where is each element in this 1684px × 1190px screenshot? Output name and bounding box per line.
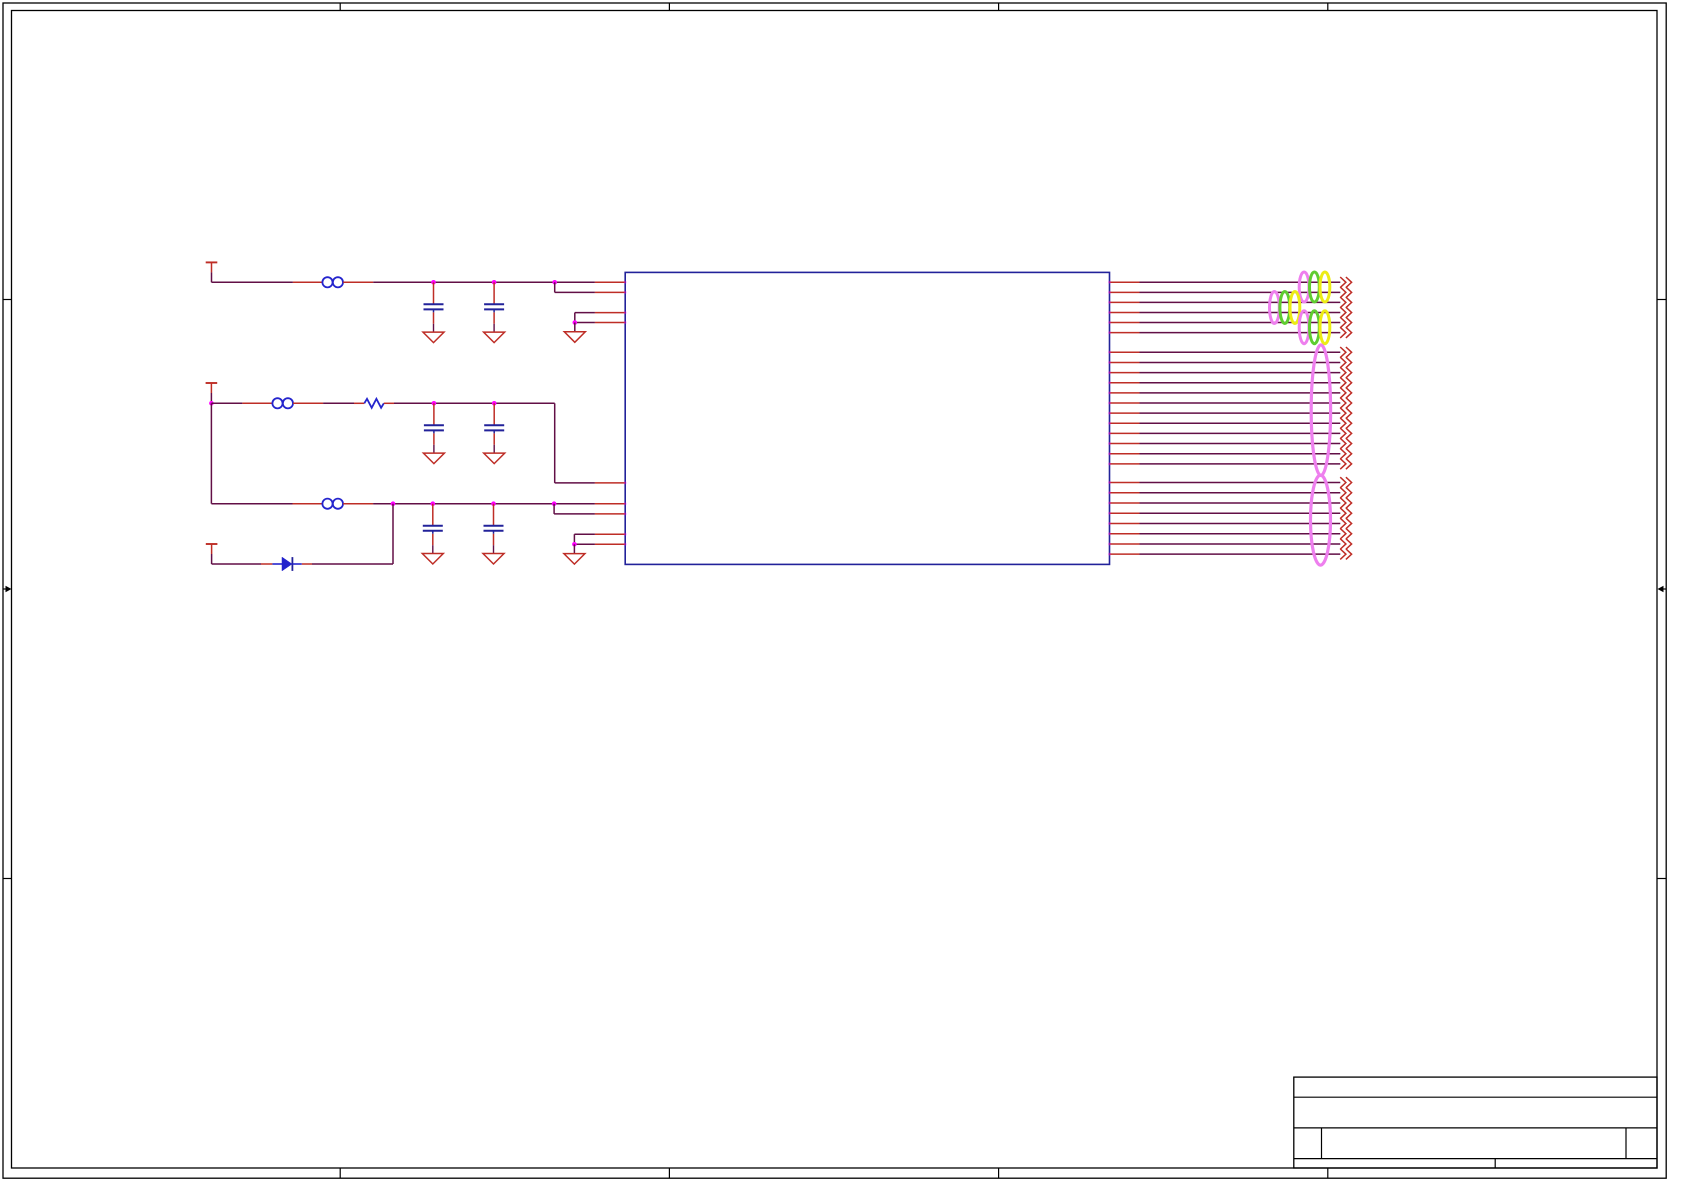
pin stub IC right B5	[1110, 392, 1140, 394]
ground below C2	[484, 332, 505, 343]
off-page connector C4	[1340, 508, 1351, 519]
net bubble tall (group C)	[1311, 475, 1331, 565]
capacitor C4	[484, 403, 504, 453]
capacitor C3	[424, 403, 444, 453]
wire left vertical middle-to-bottom	[210, 403, 212, 503]
pin stub IC right B11	[1110, 453, 1140, 455]
wire diode branch vertical	[392, 504, 394, 564]
wire net C4	[1140, 512, 1341, 514]
wire net B4	[1140, 382, 1341, 384]
off-page connector B2	[1340, 357, 1351, 368]
pin stub IC right A2	[1110, 291, 1140, 293]
pin stub diode D1 cathode	[302, 563, 312, 565]
junction rows3-4 stub	[573, 320, 578, 325]
wire branch row2 (top rail)	[555, 291, 595, 293]
off-page connector B5	[1340, 388, 1351, 399]
left centre arrow	[3, 586, 12, 592]
pin stub ferrite bead FB2 left	[242, 402, 272, 404]
off-page connector B11	[1340, 448, 1351, 459]
off-page connector B9	[1340, 428, 1351, 439]
pin stub IC right C4	[1110, 512, 1140, 514]
pin stub IC right A5	[1110, 322, 1140, 324]
ground below C6	[483, 554, 504, 565]
pin stub IC pin (bottom rail row2)	[595, 513, 625, 515]
pin stub IC right A4	[1110, 311, 1140, 313]
ground below C5	[422, 554, 443, 565]
wire net C1	[1140, 482, 1341, 484]
capacitor C5	[423, 504, 443, 554]
pin stub IC right A3	[1110, 301, 1140, 303]
IC pin connection marks	[624, 281, 1111, 556]
ferrite bead FB1	[322, 277, 343, 287]
junction top rail at C1	[431, 280, 436, 285]
wire net A6	[1140, 332, 1341, 334]
power symbol VCC (top rail)	[206, 262, 218, 272]
pin stub IC right C7	[1110, 543, 1140, 545]
capacitor C6	[484, 504, 504, 554]
junction bottom rail diode branch	[391, 501, 396, 506]
pin stub IC right B12	[1110, 463, 1140, 465]
wire middle rail segment b	[323, 402, 354, 404]
bottom zone tick 2	[668, 1168, 670, 1178]
net bubble violet (trio upper)	[1299, 272, 1309, 302]
wire net B1	[1140, 351, 1341, 353]
pin stub IC right B8	[1110, 422, 1140, 424]
pin stub diode D1 anode	[261, 563, 272, 565]
pin stub IC right A6	[1110, 332, 1140, 334]
off-page connector A6	[1340, 327, 1351, 338]
wire row s1 to stub	[574, 533, 595, 535]
pin stub IC right C1	[1110, 482, 1140, 484]
ground below C1	[423, 332, 444, 343]
ground below C3	[423, 453, 444, 464]
wire net B6	[1140, 402, 1341, 404]
pin stub ferrite bead FB3 left	[293, 503, 323, 505]
wire net C3	[1140, 502, 1341, 504]
pin stub IC right B1	[1110, 351, 1140, 353]
net bubble violet (trio left)	[1270, 292, 1280, 324]
junction middle rail at C3	[432, 401, 437, 406]
wire top rail segment a	[212, 281, 293, 283]
wire stub vertical (rows s1-s2)	[573, 534, 575, 544]
wire middle rail corner down	[554, 403, 556, 483]
off-page connector A5	[1340, 317, 1351, 328]
off-page connector B3	[1340, 367, 1351, 378]
off-page connector B6	[1340, 398, 1351, 409]
wire row4 to stub	[575, 322, 595, 324]
off-page connector B1	[1340, 347, 1351, 358]
pin stub IC right B6	[1110, 402, 1140, 404]
junction middle rail at C4	[492, 401, 497, 406]
off-page connector C5	[1340, 518, 1351, 529]
diode D1	[272, 557, 301, 571]
capacitor C2	[484, 282, 504, 332]
wire net B10	[1140, 443, 1341, 445]
right zone tick 2	[1657, 878, 1666, 880]
wire net C2	[1140, 492, 1341, 494]
pin stub ferrite bead FB1 left	[293, 281, 323, 283]
wire middle rail to IC	[555, 482, 595, 484]
capacitor C1	[424, 282, 444, 332]
net bubble green (trio left)	[1280, 292, 1290, 324]
pin stub IC right B2	[1110, 361, 1140, 363]
net bubble yellow (trio upper)	[1320, 272, 1330, 302]
pin stub ferrite bead FB3 right	[343, 503, 373, 505]
wire net A1	[1140, 281, 1341, 283]
right centre arrow	[1658, 586, 1667, 592]
net bubble yellow (trio lower)	[1320, 311, 1330, 344]
net bubble tall (group B)	[1311, 345, 1330, 476]
off-page connector B7	[1340, 408, 1351, 419]
pin stub IC pin row s1	[595, 533, 625, 535]
wire net A2	[1140, 291, 1341, 293]
pin stub IC right A1	[1110, 281, 1140, 283]
pin stub IC right C2	[1110, 492, 1140, 494]
wire net C8	[1140, 553, 1341, 555]
net bubble green (trio upper)	[1310, 272, 1320, 302]
wire net B2	[1140, 361, 1341, 363]
wire top rail segment b	[373, 281, 595, 283]
pin stub IC right B4	[1110, 382, 1140, 384]
power symbol VCC (middle rail)	[206, 383, 218, 393]
wire net B12	[1140, 463, 1341, 465]
off-page connector A1	[1340, 277, 1351, 288]
junction rows s1-s2 stub	[572, 542, 577, 547]
wire stub vertical (rows3-4)	[574, 313, 576, 323]
pin stub IC right B3	[1110, 372, 1140, 374]
junction bottom rail at C5	[431, 501, 436, 506]
pin stub IC right C3	[1110, 502, 1140, 504]
off-page connector B10	[1340, 438, 1351, 449]
off-page connector B4	[1340, 377, 1351, 388]
wire stub to ground (rows3-4)	[574, 323, 576, 332]
off-page connector C6	[1340, 528, 1351, 539]
off-page connector C2	[1340, 487, 1351, 498]
wire net B3	[1140, 372, 1341, 374]
junction top rail at C2	[492, 280, 497, 285]
wire net B8	[1140, 422, 1341, 424]
pin stub IC right B9	[1110, 432, 1140, 434]
off-page connector C1	[1340, 477, 1351, 488]
pin stub ferrite bead FB2 right	[293, 402, 323, 404]
wire bottom rail segment b	[373, 503, 595, 505]
wire net A4	[1140, 311, 1341, 313]
junction middle rail left	[209, 401, 214, 406]
bottom zone tick 3	[998, 1168, 1000, 1178]
pin stub IC right B7	[1110, 412, 1140, 414]
top zone tick 4	[1327, 3, 1329, 11]
wire net B5	[1140, 392, 1341, 394]
top zone tick 2	[668, 3, 670, 11]
wire power stem (middle rail)	[210, 393, 212, 403]
off-page connector B12	[1340, 459, 1351, 470]
pin stub IC right B10	[1110, 443, 1140, 445]
pin stub IC pin (top rail row2)	[595, 291, 625, 293]
wire net C5	[1140, 522, 1341, 524]
ground below C4	[484, 453, 505, 464]
wire diode row segment a	[212, 563, 261, 565]
ferrite bead FB2	[272, 398, 293, 408]
right zone tick 1	[1657, 299, 1666, 301]
wire branch down (top rail)	[554, 282, 556, 292]
title block	[1294, 1077, 1657, 1168]
wire power stem (top rail)	[211, 272, 213, 282]
pin stub IC pin (top rail row1)	[595, 281, 625, 283]
junction top rail branch	[552, 280, 557, 285]
wire net C7	[1140, 543, 1341, 545]
top zone tick 1	[339, 3, 341, 11]
wire row s2 to stub	[574, 543, 595, 545]
off-page connector C3	[1340, 498, 1351, 509]
wire net A3	[1140, 301, 1341, 303]
pin stub resistor R1 left	[354, 402, 364, 404]
top zone tick 3	[998, 3, 1000, 11]
wire diode row segment b	[312, 563, 393, 565]
wire middle rail segment a	[211, 402, 242, 404]
off-page connector A4	[1340, 307, 1351, 318]
wire net B7	[1140, 412, 1341, 414]
pin stub IC right C5	[1110, 522, 1140, 524]
wire net A5	[1140, 322, 1341, 324]
wire net B9	[1140, 432, 1341, 434]
wire branch down (bottom rail)	[553, 504, 555, 514]
off-page connector A2	[1340, 287, 1351, 298]
power symbol VCC (diode branch)	[206, 544, 218, 554]
bottom zone tick 4	[1327, 1168, 1329, 1178]
pin stub IC pin row s2	[595, 543, 625, 545]
bottom zone tick 1	[339, 1168, 341, 1178]
wire power stem (diode branch)	[211, 554, 213, 564]
junction bottom rail at C6	[491, 501, 496, 506]
off-page connector B8	[1340, 418, 1351, 429]
off-page connector C8	[1340, 549, 1351, 560]
pin stub IC right C8	[1110, 553, 1140, 555]
resistor R1	[364, 399, 384, 408]
junction bottom rail branch	[552, 501, 557, 506]
net bubble green (trio lower)	[1310, 311, 1320, 344]
pin stub IC pin (bottom rail row1)	[595, 503, 625, 505]
wire row3 to stub	[575, 312, 595, 314]
pin stub IC pin row4	[595, 322, 625, 324]
left zone tick 1	[3, 299, 12, 301]
pin stub IC pin row3	[595, 312, 625, 314]
ferrite bead FB3	[322, 499, 343, 509]
wire stub to ground (rows s1-s2)	[573, 544, 575, 553]
pin stub IC right C6	[1110, 533, 1140, 535]
off-page connector C7	[1340, 539, 1351, 550]
wire net C6	[1140, 533, 1341, 535]
wire middle rail segment c	[394, 402, 555, 404]
net bubble violet (trio lower)	[1299, 311, 1309, 344]
pin stub ferrite bead FB1 right	[343, 281, 373, 283]
IC U1 body	[625, 272, 1109, 564]
pin stub IC pin (middle rail)	[595, 482, 625, 484]
net bubble yellow (trio left)	[1290, 292, 1300, 324]
left zone tick 2	[3, 878, 12, 880]
wire branch row2 (bottom rail)	[554, 513, 595, 515]
ground (top pin pair)	[564, 332, 585, 343]
ground (bottom pin pair)	[564, 554, 585, 565]
pin stub resistor R1 right	[384, 402, 394, 404]
wire bottom rail segment a	[211, 503, 292, 505]
off-page connector A3	[1340, 297, 1351, 308]
wire net B11	[1140, 453, 1341, 455]
